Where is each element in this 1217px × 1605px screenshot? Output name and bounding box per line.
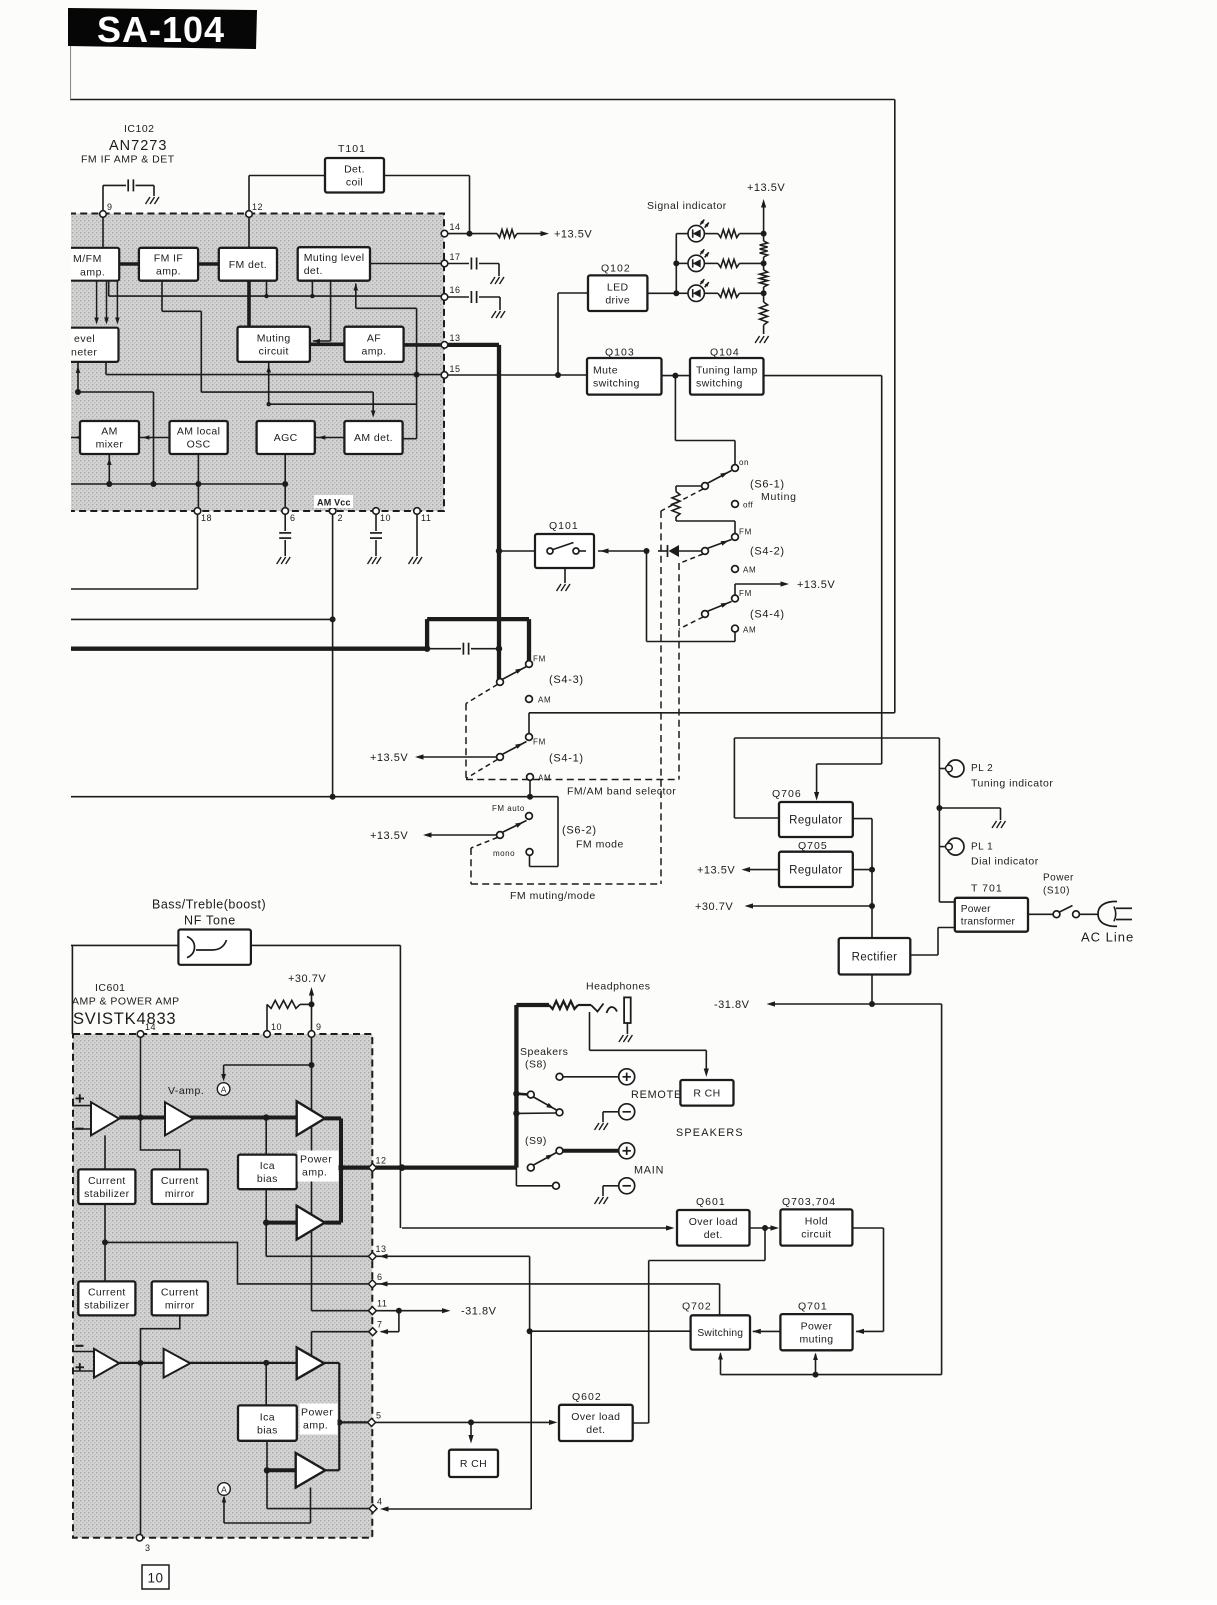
svg-text:Tuning lamp: Tuning lamp [696, 364, 758, 376]
svg-text:Dial indicator: Dial indicator [971, 856, 1039, 868]
svg-text:(S9): (S9) [525, 1135, 547, 1147]
svg-text:coil: coil [346, 176, 363, 188]
svg-text:Power: Power [301, 1407, 333, 1419]
svg-text:Signal indicator: Signal indicator [647, 200, 727, 212]
svg-text:12: 12 [376, 1156, 387, 1166]
svg-text:(S8): (S8) [525, 1059, 547, 1071]
svg-text:(S4-4): (S4-4) [750, 609, 785, 621]
svg-text:AMP & POWER AMP: AMP & POWER AMP [72, 996, 180, 1008]
svg-text:bias: bias [257, 1173, 278, 1185]
svg-text:Q706: Q706 [772, 788, 802, 800]
svg-text:SVISTK4833: SVISTK4833 [73, 1010, 176, 1028]
svg-text:transformer: transformer [961, 917, 1016, 928]
svg-text:LED: LED [607, 281, 629, 293]
svg-text:+13.5V: +13.5V [797, 579, 835, 591]
svg-text:amp.: amp. [80, 267, 105, 279]
svg-text:14: 14 [145, 1022, 156, 1032]
svg-text:MAIN: MAIN [634, 1165, 664, 1177]
svg-text:Power: Power [300, 1154, 332, 1166]
svg-text:-31.8V: -31.8V [714, 999, 750, 1011]
svg-text:Q701: Q701 [798, 1301, 828, 1313]
svg-text:Q104: Q104 [710, 347, 740, 359]
svg-text:+13.5V: +13.5V [370, 830, 408, 842]
svg-text:amp.: amp. [302, 1167, 327, 1179]
svg-text:10: 10 [271, 1022, 282, 1032]
svg-text:Mute: Mute [593, 364, 618, 376]
svg-text:AM: AM [101, 426, 118, 438]
svg-text:PL 1: PL 1 [971, 842, 993, 853]
svg-text:Det.: Det. [344, 163, 365, 175]
svg-text:M/FM: M/FM [73, 253, 102, 265]
svg-text:5: 5 [376, 1411, 382, 1421]
svg-text:11: 11 [421, 513, 431, 523]
svg-text:+30.7V: +30.7V [695, 901, 733, 913]
svg-text:FM muting/mode: FM muting/mode [510, 890, 596, 902]
svg-text:neter: neter [71, 347, 97, 359]
svg-text:Ica: Ica [260, 1160, 275, 1172]
svg-text:FM mode: FM mode [576, 839, 624, 851]
svg-text:AGC: AGC [274, 432, 298, 444]
svg-text:AM det.: AM det. [354, 432, 393, 444]
svg-text:drive: drive [605, 294, 630, 306]
svg-text:15: 15 [450, 364, 461, 374]
svg-text:Rectifier: Rectifier [852, 951, 898, 963]
svg-text:FM: FM [533, 738, 546, 747]
svg-text:18: 18 [201, 513, 212, 523]
svg-text:Hold: Hold [805, 1216, 828, 1228]
svg-text:mirror: mirror [165, 1300, 195, 1312]
svg-text:det.: det. [704, 1229, 723, 1241]
svg-text:14: 14 [450, 222, 461, 232]
svg-text:6: 6 [377, 1272, 383, 1282]
svg-text:9: 9 [107, 202, 113, 212]
svg-text:Over load: Over load [689, 1216, 738, 1228]
svg-text:Ica: Ica [260, 1411, 275, 1423]
svg-text:amp.: amp. [303, 1420, 328, 1432]
svg-text:mono: mono [493, 849, 515, 858]
svg-text:Regulator: Regulator [789, 864, 842, 876]
svg-text:9: 9 [316, 1022, 322, 1032]
svg-text:13: 13 [450, 333, 461, 343]
svg-text:Current: Current [88, 1287, 126, 1299]
svg-text:FM/AM band selector: FM/AM band selector [567, 786, 676, 798]
svg-text:17: 17 [450, 252, 461, 262]
svg-text:circuit: circuit [801, 1229, 831, 1241]
svg-text:Switching: Switching [697, 1328, 743, 1339]
svg-text:Tuning indicator: Tuning indicator [971, 778, 1053, 790]
svg-text:13: 13 [376, 1244, 387, 1254]
svg-text:bias: bias [257, 1424, 278, 1436]
svg-text:10: 10 [147, 1571, 163, 1586]
svg-text:AM: AM [743, 626, 756, 635]
svg-text:IC601: IC601 [95, 982, 126, 994]
svg-text:NF Tone: NF Tone [184, 914, 236, 928]
svg-text:R CH: R CH [693, 1087, 720, 1099]
svg-text:-31.8V: -31.8V [461, 1306, 497, 1318]
svg-text:Over load: Over load [571, 1411, 620, 1423]
svg-text:AM Vcc: AM Vcc [317, 498, 351, 508]
svg-text:+13.5V: +13.5V [370, 752, 408, 764]
svg-text:Q601: Q601 [696, 1196, 726, 1208]
svg-text:off: off [743, 501, 754, 510]
svg-text:AM local: AM local [177, 426, 220, 438]
svg-text:+13.5V: +13.5V [554, 229, 592, 241]
svg-text:R CH: R CH [460, 1458, 487, 1470]
svg-text:FM IF: FM IF [154, 252, 183, 264]
svg-text:Q101: Q101 [549, 520, 579, 532]
svg-text:Speakers: Speakers [520, 1046, 568, 1058]
svg-text:REMOTE: REMOTE [631, 1089, 682, 1101]
svg-text:Q702: Q702 [682, 1301, 712, 1313]
svg-text:stabilizer: stabilizer [84, 1188, 130, 1200]
svg-text:Current: Current [161, 1175, 199, 1187]
svg-text:AM: AM [538, 774, 551, 783]
svg-text:7: 7 [377, 1320, 383, 1330]
svg-text:Q602: Q602 [572, 1391, 602, 1403]
svg-text:Muting: Muting [257, 332, 291, 344]
svg-text:PL 2: PL 2 [971, 763, 993, 774]
svg-text:amp.: amp. [362, 345, 387, 357]
svg-text:FM det.: FM det. [229, 259, 267, 271]
svg-text:Q705: Q705 [798, 840, 828, 852]
svg-text:Headphones: Headphones [586, 981, 651, 993]
svg-text:FM: FM [739, 528, 752, 537]
svg-text:T 701: T 701 [971, 883, 1003, 895]
svg-text:+30.7V: +30.7V [288, 973, 326, 985]
svg-text:11: 11 [377, 1299, 387, 1309]
svg-text:(S4-3): (S4-3) [549, 674, 584, 686]
svg-text:3: 3 [145, 1543, 151, 1553]
svg-text:SA-104: SA-104 [97, 9, 225, 50]
svg-text:16: 16 [450, 285, 461, 295]
svg-text:FM auto: FM auto [492, 804, 525, 813]
svg-text:AM: AM [538, 696, 551, 705]
svg-text:Bass/Treble(boost): Bass/Treble(boost) [152, 898, 266, 912]
svg-text:Q103: Q103 [605, 347, 635, 359]
svg-text:2: 2 [338, 513, 344, 523]
svg-text:circuit: circuit [259, 345, 289, 357]
svg-text:Regulator: Regulator [789, 815, 842, 827]
svg-text:+13.5V: +13.5V [697, 865, 735, 877]
svg-text:Power: Power [1043, 873, 1074, 884]
svg-text:det.: det. [586, 1424, 605, 1436]
svg-text:OSC: OSC [187, 439, 211, 451]
svg-text:+13.5V: +13.5V [747, 182, 785, 194]
svg-text:Power: Power [961, 904, 991, 915]
svg-text:mixer: mixer [96, 439, 124, 451]
svg-text:10: 10 [380, 513, 391, 523]
svg-text:SPEAKERS: SPEAKERS [676, 1127, 744, 1139]
svg-text:AM: AM [743, 566, 756, 575]
svg-text:12: 12 [252, 202, 263, 212]
svg-text:FM: FM [533, 655, 546, 664]
svg-text:IC102: IC102 [124, 123, 155, 135]
svg-text:stabilizer: stabilizer [84, 1300, 130, 1312]
svg-text:switching: switching [593, 377, 640, 389]
svg-text:Q102: Q102 [601, 263, 631, 275]
svg-text:amp.: amp. [156, 265, 181, 277]
svg-text:V-amp.: V-amp. [168, 1085, 204, 1097]
svg-text:Q703,704: Q703,704 [782, 1196, 836, 1208]
svg-text:FM: FM [739, 589, 752, 598]
svg-text:A: A [221, 1485, 227, 1495]
svg-text:evel: evel [74, 333, 95, 345]
svg-text:AC Line: AC Line [1081, 930, 1134, 945]
svg-text:Muting level: Muting level [304, 252, 365, 264]
svg-text:det.: det. [304, 265, 323, 277]
svg-text:(S10): (S10) [1043, 886, 1070, 897]
svg-text:Power: Power [801, 1320, 833, 1332]
svg-text:AN7273: AN7273 [109, 138, 167, 154]
svg-text:switching: switching [696, 377, 743, 389]
svg-text:muting: muting [800, 1333, 834, 1345]
svg-text:(S4-2): (S4-2) [750, 546, 785, 558]
svg-text:Current: Current [161, 1287, 199, 1299]
svg-text:4: 4 [377, 1497, 383, 1507]
svg-text:6: 6 [290, 513, 296, 523]
svg-text:(S4-1): (S4-1) [549, 753, 584, 765]
svg-text:mirror: mirror [165, 1188, 195, 1200]
svg-text:FM IF AMP & DET: FM IF AMP & DET [81, 154, 175, 166]
svg-text:(S6-2): (S6-2) [562, 825, 597, 837]
svg-text:T101: T101 [338, 143, 366, 155]
svg-text:on: on [739, 458, 749, 467]
svg-text:Muting: Muting [761, 491, 797, 503]
svg-text:AF: AF [367, 332, 381, 344]
svg-text:A: A [221, 1085, 227, 1095]
svg-text:Current: Current [88, 1175, 126, 1187]
svg-text:(S6-1): (S6-1) [750, 479, 785, 491]
